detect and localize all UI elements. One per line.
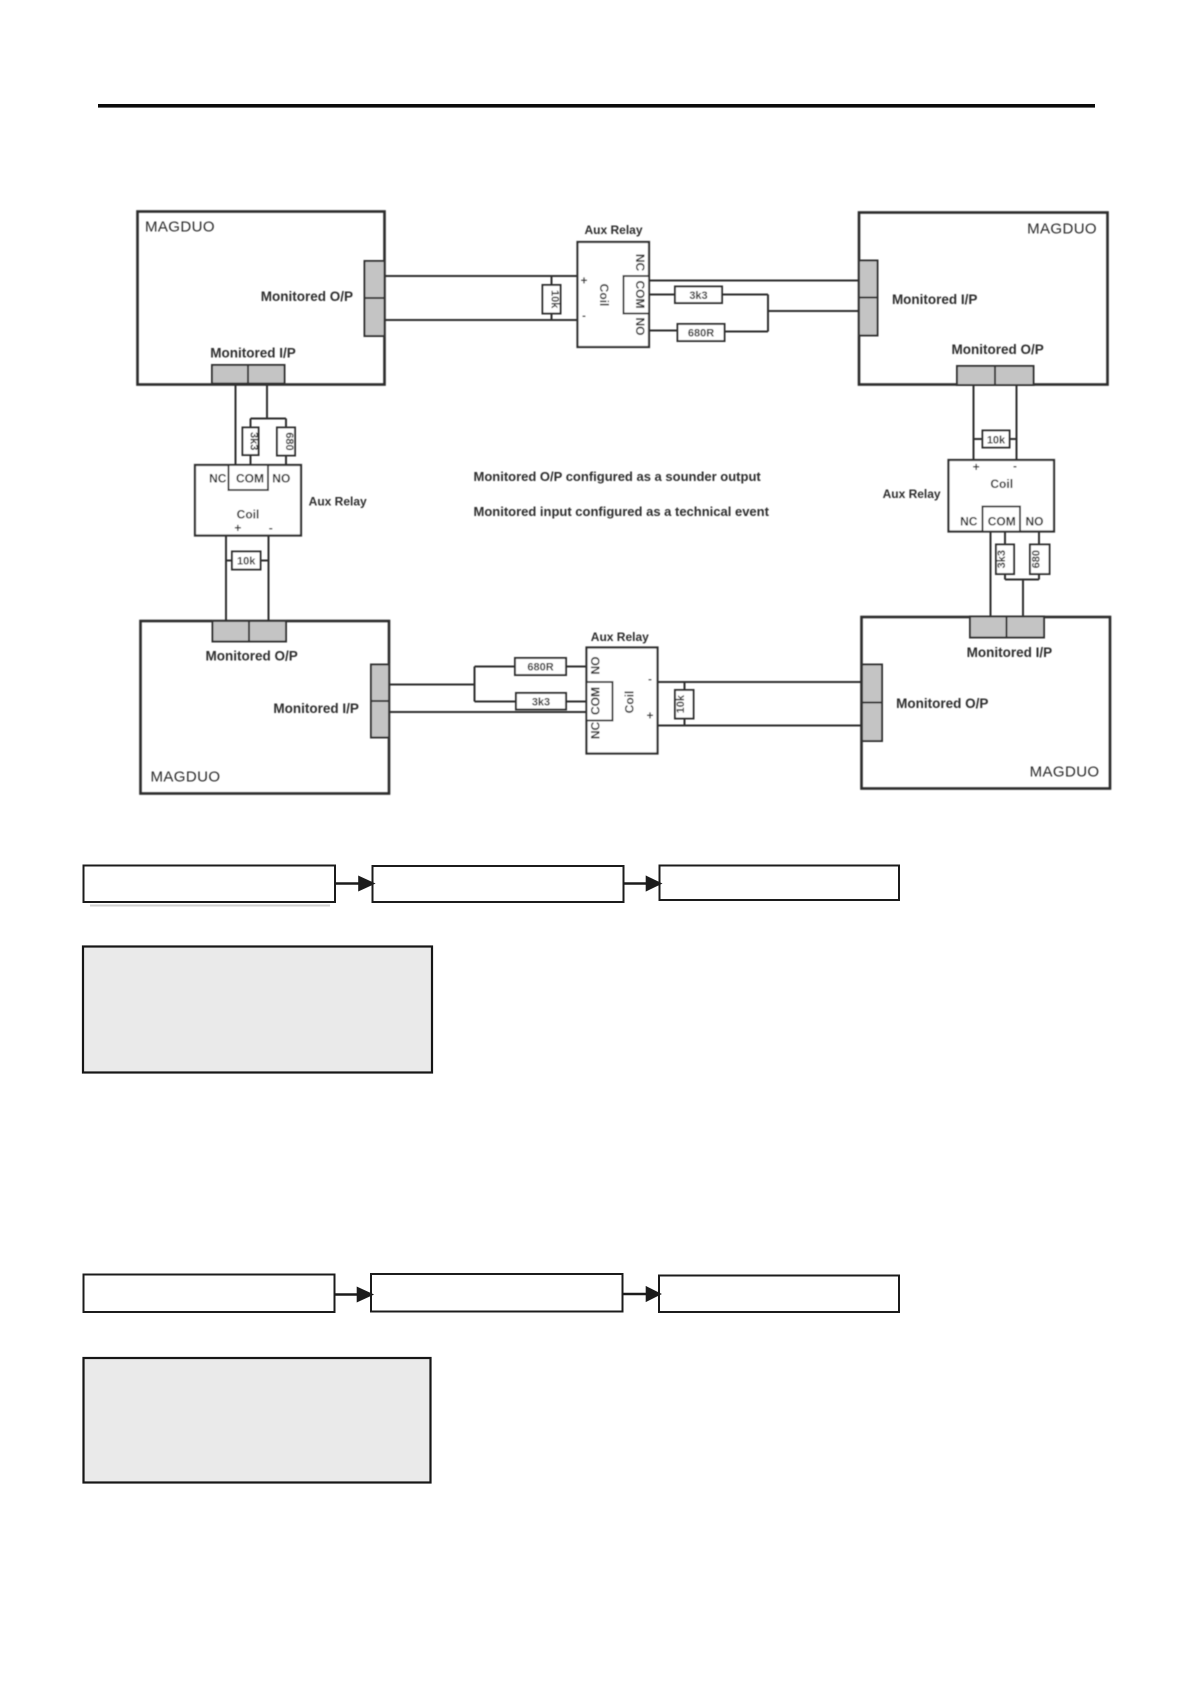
svg-text:Monitored O/P: Monitored O/P <box>205 649 297 664</box>
svg-text:-: - <box>582 309 586 323</box>
svg-text:680R: 680R <box>688 328 714 340</box>
svg-text:NC: NC <box>589 722 603 740</box>
svg-text:COM: COM <box>633 281 647 309</box>
svg-text:MAGDUO: MAGDUO <box>1027 221 1097 238</box>
svg-text:NO: NO <box>272 472 290 486</box>
svg-text:3k3: 3k3 <box>248 432 260 450</box>
svg-text:Monitored I/P: Monitored I/P <box>892 292 978 307</box>
svg-text:Monitored I/P: Monitored I/P <box>273 701 359 716</box>
svg-text:MAGDUO: MAGDUO <box>151 769 221 786</box>
svg-text:Aux Relay: Aux Relay <box>883 487 941 501</box>
svg-text:-: - <box>269 521 273 535</box>
svg-text:Monitored I/P: Monitored I/P <box>967 645 1053 660</box>
svg-text:+: + <box>973 460 980 474</box>
svg-text:-: - <box>1013 459 1017 473</box>
svg-text:MAGDUO: MAGDUO <box>145 219 215 236</box>
svg-text:NO: NO <box>633 318 647 336</box>
svg-text:3k3: 3k3 <box>689 290 707 302</box>
svg-text:3k3: 3k3 <box>532 697 550 709</box>
svg-text:680: 680 <box>283 432 295 450</box>
svg-text:COM: COM <box>589 687 603 715</box>
svg-text:Monitored input configured as: Monitored input configured as a technica… <box>474 504 770 519</box>
svg-text:COM: COM <box>988 515 1016 529</box>
svg-text:NC: NC <box>960 515 978 529</box>
svg-text:Monitored O/P configured as a: Monitored O/P configured as a sounder ou… <box>474 469 762 484</box>
svg-text:NC: NC <box>209 472 227 486</box>
svg-text:Coil: Coil <box>597 284 611 307</box>
svg-text:Monitored O/P: Monitored O/P <box>951 342 1043 357</box>
svg-text:680: 680 <box>1031 550 1043 568</box>
svg-text:NC: NC <box>633 254 647 272</box>
svg-text:10k: 10k <box>987 435 1006 447</box>
svg-text:10k: 10k <box>675 694 687 713</box>
svg-text:+: + <box>234 521 241 535</box>
svg-text:Coil: Coil <box>990 477 1013 491</box>
svg-text:NO: NO <box>589 657 603 675</box>
svg-text:MAGDUO: MAGDUO <box>1030 764 1100 781</box>
svg-text:-: - <box>648 672 652 686</box>
svg-text:3k3: 3k3 <box>996 550 1008 568</box>
svg-text:680R: 680R <box>527 662 553 674</box>
svg-text:Aux Relay: Aux Relay <box>584 223 642 237</box>
svg-text:Coil: Coil <box>237 508 260 522</box>
svg-text:10k: 10k <box>237 556 256 568</box>
svg-text:NO: NO <box>1026 515 1044 529</box>
svg-text:Aux Relay: Aux Relay <box>591 630 649 644</box>
svg-text:+: + <box>580 274 587 288</box>
svg-text:10k: 10k <box>549 290 561 309</box>
svg-text:Coil: Coil <box>623 691 637 714</box>
svg-text:Aux Relay: Aux Relay <box>309 495 367 509</box>
svg-text:+: + <box>646 709 653 723</box>
svg-text:Monitored O/P: Monitored O/P <box>261 289 353 304</box>
svg-text:Monitored O/P: Monitored O/P <box>896 696 988 711</box>
svg-text:COM: COM <box>236 472 264 486</box>
svg-text:Monitored I/P: Monitored I/P <box>210 346 296 361</box>
